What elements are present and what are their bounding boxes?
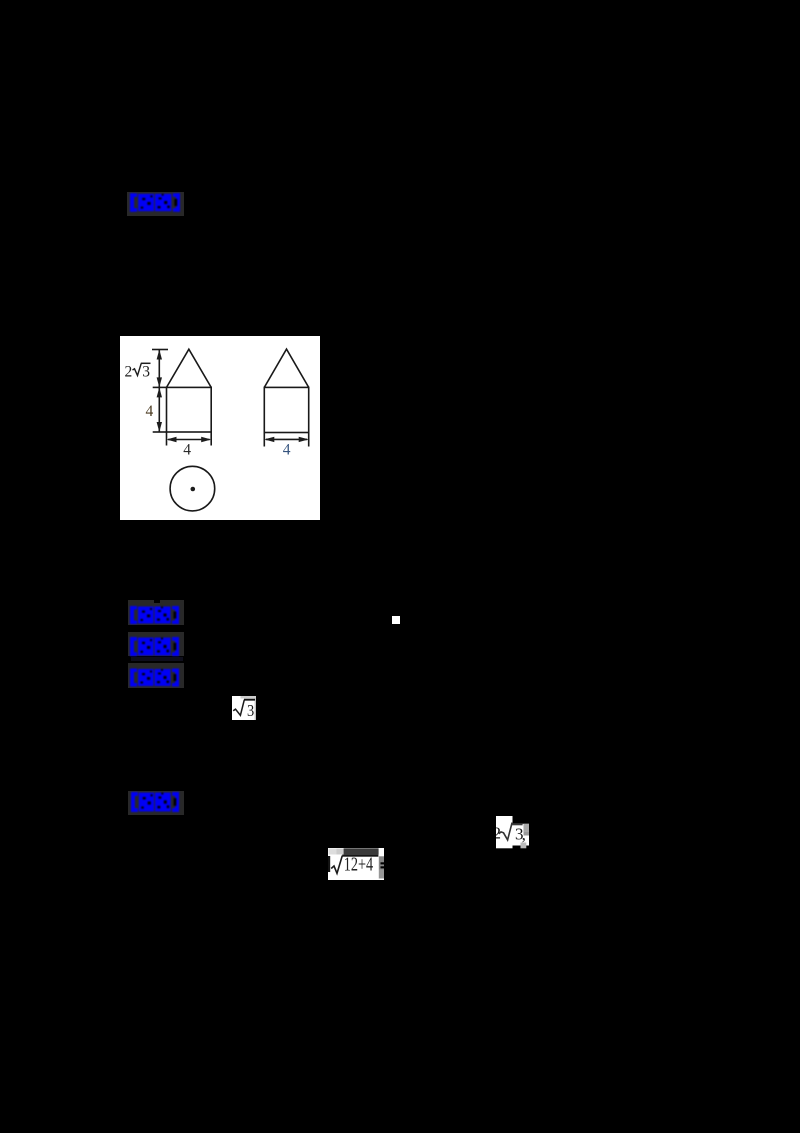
center dot <box>191 487 196 492</box>
tick mid <box>153 386 167 388</box>
arrowheads vertical dim <box>157 350 162 360</box>
formula sqrt3 <box>232 696 256 720</box>
circle (top view) <box>170 466 215 511</box>
svg-text:4: 4 <box>283 442 291 459</box>
label 【分析】 <box>128 632 184 656</box>
black notch artifact on row1 <box>154 600 160 603</box>
white square bullet <box>392 616 400 624</box>
triangle 2 (side view roof) <box>264 349 308 387</box>
square 2 (side view body) <box>264 387 308 432</box>
formula sqrt(12+4) <box>328 848 384 880</box>
square 1 (front view body) <box>167 387 212 432</box>
svg-text:4: 4 <box>183 442 191 459</box>
horizontal dim arrow 2 <box>266 438 307 440</box>
square1 side extensions <box>166 432 168 446</box>
label 【点评】 <box>128 791 184 815</box>
label 【考点】 <box>127 192 184 216</box>
tick top <box>152 349 168 351</box>
arrowheads horizontal 1 <box>167 437 177 442</box>
formula 2 sqrt3 , <box>496 816 529 849</box>
faint dark strip under row2 <box>131 657 183 661</box>
svg-text:2: 2 <box>125 364 133 381</box>
tick bottom <box>153 431 167 433</box>
svg-text:3: 3 <box>142 364 150 381</box>
svg-text:,: , <box>521 825 525 844</box>
arrowheads horizontal 2 <box>264 437 274 442</box>
svg-text:12+4: 12+4 <box>344 853 374 875</box>
figure box <box>120 336 320 520</box>
label 【专题】 <box>128 600 184 625</box>
triangle 1 (front view roof) <box>167 349 212 387</box>
square2 side extensions <box>263 433 265 447</box>
label 【解答】 <box>128 663 184 688</box>
svg-text:3: 3 <box>247 702 254 720</box>
horizontal dim arrow 1 <box>168 439 210 441</box>
vertical dim line <box>158 350 160 433</box>
svg-text:4: 4 <box>146 403 154 420</box>
